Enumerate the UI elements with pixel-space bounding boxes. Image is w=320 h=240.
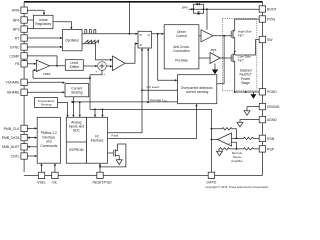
pin PVIN bbox=[259, 16, 275, 22]
wire power stage kelvin to PGND bbox=[245, 91, 247, 92]
ground AGND open bbox=[237, 122, 243, 127]
wire PMB_CLK to PMBus block bbox=[27, 127, 34, 129]
pin RSP bbox=[259, 146, 275, 152]
wire ramp oscillator to PWM comparator bbox=[82, 44, 110, 60]
pin SW bbox=[259, 36, 273, 42]
wire AGND to ground bbox=[240, 120, 259, 123]
wire bottom rail bbox=[24, 174, 262, 176]
block Analog Inputs and ADC / EEPROM bbox=[66, 117, 86, 163]
pin BP3 bbox=[13, 26, 27, 32]
wire SMB_ALRT to pin bbox=[30, 146, 37, 148]
svg-text:ISHARE: ISHARE bbox=[7, 91, 20, 95]
wire top rail bbox=[24, 1, 262, 3]
wire level shifter to summing node bbox=[83, 65, 95, 67]
wire droop line to remote sense feedback bbox=[90, 109, 211, 128]
svg-text:RSP: RSP bbox=[267, 147, 275, 151]
pin RT bbox=[15, 35, 27, 41]
svg-text:PGND: PGND bbox=[267, 90, 277, 94]
wire driver control to high side driver bbox=[199, 35, 201, 37]
wire sense tap to OC block bbox=[223, 35, 225, 37]
wire left pin chain bbox=[23, 2, 25, 172]
wire vsense drop to droop line bbox=[89, 75, 91, 110]
svg-text:VSEL: VSEL bbox=[37, 181, 46, 185]
ground remote sense open bbox=[217, 151, 223, 156]
svg-text:+: + bbox=[37, 69, 39, 73]
block Current Sharing bbox=[65, 84, 89, 97]
pin RSN bbox=[259, 135, 275, 141]
wire right pin chain bbox=[262, 2, 264, 176]
svg-text:StackedNexFETPowerStage: StackedNexFETPowerStage bbox=[240, 69, 252, 86]
block Driver Control / Anti-Cross-Conduction / Pre-Bias bbox=[164, 25, 199, 69]
pin SMB_ALRT bbox=[2, 144, 28, 150]
wire comparator to latch R bbox=[125, 44, 136, 64]
svg-text:EEPROM: EEPROM bbox=[69, 148, 84, 152]
svg-text:+: + bbox=[95, 70, 97, 74]
dashed power stage box bbox=[222, 18, 256, 91]
wire DRGND to ground bbox=[247, 107, 259, 111]
transistor Q1 reset open drain bbox=[108, 152, 114, 154]
svg-text:COMP: COMP bbox=[9, 54, 20, 58]
wire latch Q to driver control bbox=[152, 33, 162, 35]
wire current sharing to ADC bbox=[72, 97, 74, 115]
svg-text:FB: FB bbox=[15, 62, 20, 66]
wire VSEL up to PMBus block bbox=[41, 166, 43, 173]
clock pulses glyph bbox=[85, 30, 96, 34]
svg-text:Oscillator: Oscillator bbox=[65, 38, 80, 42]
pin RESET/PGD bbox=[92, 172, 112, 184]
resistor R4 to ground bbox=[219, 148, 236, 152]
pin FB bbox=[15, 61, 27, 67]
svg-text:CurrentSharing: CurrentSharing bbox=[71, 86, 83, 94]
block I2C Interface bbox=[87, 117, 108, 163]
wire BOOT supply down to high side driver bbox=[206, 9, 208, 30]
wire BP3 to Linear Regulators bbox=[27, 28, 33, 30]
wire low side driver to FET gate bbox=[220, 57, 231, 59]
pin PGND bbox=[259, 89, 277, 95]
svg-text:SYNC: SYNC bbox=[10, 45, 20, 49]
ground below Q1 bbox=[116, 160, 122, 165]
wire average line to ADC bbox=[79, 102, 81, 115]
wire PGND line bbox=[235, 91, 260, 93]
svg-text:VSHARE: VSHARE bbox=[6, 81, 21, 85]
svg-text:+: + bbox=[104, 72, 106, 76]
svg-text:Fault: Fault bbox=[112, 134, 119, 138]
pin AGND bbox=[259, 116, 277, 122]
svg-text:BOOT: BOOT bbox=[267, 7, 277, 11]
PWM comparator U3 bbox=[113, 56, 126, 71]
boot circuit wires and diodes bbox=[189, 8, 260, 10]
pin SYNC bbox=[10, 44, 27, 50]
feedback resistor R1 bbox=[211, 128, 236, 139]
wire RESET/PGD up to I2C interface bbox=[99, 166, 101, 173]
svg-text:RemoteSenseAmplifier: RemoteSenseAmplifier bbox=[231, 151, 243, 163]
wire OC event to latch R bottom bbox=[142, 51, 178, 91]
remote sense amp U4 bbox=[218, 133, 232, 146]
wire amp output to DIFFO bbox=[211, 129, 217, 172]
wire PMB_DATA bidirectional bbox=[30, 137, 35, 139]
wire vsense horizontal bbox=[33, 77, 90, 79]
wire SW to FET midpoint bbox=[235, 40, 260, 55]
wire latch Q down to OC block bbox=[158, 34, 175, 81]
block Oscillator bbox=[63, 29, 83, 50]
wire Linear Regulators to Oscillator top bbox=[53, 22, 71, 27]
svg-text:ISL: ISL bbox=[52, 181, 57, 185]
wire RT to Oscillator bbox=[27, 37, 60, 39]
svg-text:-: - bbox=[229, 137, 230, 141]
wire vin drop to clock line bbox=[128, 3, 130, 34]
wire ISHARE to current sharing bbox=[27, 91, 62, 93]
svg-text:-: - bbox=[37, 62, 38, 66]
wire high side driver to FET gate bbox=[213, 35, 231, 37]
transistor high-side FET bbox=[230, 31, 232, 38]
wire driver control to low side driver bbox=[199, 57, 210, 59]
wire RSN input resistor R2 bbox=[232, 137, 260, 139]
wire average iout line bbox=[72, 101, 177, 103]
wire RSP input resistor R3 bbox=[232, 142, 260, 150]
pin ISL bbox=[52, 172, 58, 184]
svg-text:PMB_DATA: PMB_DATA bbox=[2, 136, 21, 140]
svg-text:BP3: BP3 bbox=[13, 28, 20, 32]
svg-text:DIFFO: DIFFO bbox=[206, 181, 216, 185]
wire summing node bottom input bbox=[90, 70, 102, 75]
wire droop drops into interface blocks bbox=[94, 109, 96, 114]
driver amp low side bbox=[210, 53, 220, 64]
wire FET chain mid bbox=[234, 41, 236, 52]
pin CNTL bbox=[11, 153, 28, 159]
wire FB to error amp bbox=[27, 63, 34, 65]
svg-text:BP6: BP6 bbox=[13, 18, 20, 22]
wire error amp to level shifter bbox=[49, 65, 65, 67]
block Temperature Sensing bbox=[35, 98, 58, 108]
svg-text:DRGND: DRGND bbox=[267, 105, 280, 109]
svg-text:VREF: VREF bbox=[43, 72, 51, 76]
pin DIFFO bbox=[206, 172, 216, 184]
wire fault line to OC block bbox=[108, 106, 197, 138]
svg-text:+: + bbox=[228, 142, 230, 146]
svg-text:BP6: BP6 bbox=[211, 48, 217, 52]
pin BP6 bbox=[13, 17, 27, 23]
svg-text:SMB_ALRT: SMB_ALRT bbox=[2, 145, 20, 149]
ground PGND solid bbox=[250, 94, 256, 99]
svg-text:PVIN: PVIN bbox=[267, 17, 275, 21]
wire VSHARE to current sharing bbox=[27, 81, 62, 83]
pin BOOT bbox=[259, 6, 276, 12]
svg-text:SW: SW bbox=[267, 38, 273, 42]
svg-text:PMB_CLK: PMB_CLK bbox=[4, 127, 21, 131]
pin AVIN bbox=[12, 7, 27, 13]
pin PMB_DATA bbox=[2, 134, 28, 140]
wire low-side FET source to PGND bbox=[234, 65, 236, 92]
pin ISHARE bbox=[7, 89, 27, 95]
wire SYNC to Oscillator bbox=[27, 46, 60, 48]
wire CNTL to PMBus block bbox=[27, 155, 34, 157]
SR latch U2 bbox=[138, 31, 152, 48]
wire vsense to error amp plus input bbox=[32, 70, 35, 78]
svg-text:BP6: BP6 bbox=[182, 6, 188, 10]
pin COMP bbox=[9, 53, 27, 59]
pin DRGND bbox=[259, 103, 280, 109]
sawtooth ramp glyph bbox=[85, 40, 99, 43]
svg-text:AGND: AGND bbox=[267, 118, 277, 122]
svg-text:RESET/PGD: RESET/PGD bbox=[92, 181, 112, 185]
block Level Shifter bbox=[65, 60, 83, 71]
ground below low side driver bbox=[214, 64, 216, 70]
transistor low-side FET bbox=[230, 55, 232, 62]
wire clock line oscillator to latch S bbox=[82, 33, 136, 35]
wire AVIN to Linear Regulators bbox=[27, 10, 44, 13]
pin VSEL bbox=[37, 172, 46, 184]
wire fault reset to I2C interface bbox=[108, 90, 142, 133]
svg-text:CNTL: CNTL bbox=[11, 154, 20, 158]
svg-text:RSN: RSN bbox=[267, 137, 275, 141]
error amp U1 bbox=[36, 60, 49, 72]
wire temperature sensing to ADC bbox=[58, 103, 68, 115]
block Overcurrent detection, current sensing bbox=[178, 75, 217, 104]
wire latch bottom second arrow bbox=[147, 51, 149, 103]
ground DRGND open bbox=[244, 111, 250, 116]
svg-text:RT: RT bbox=[15, 36, 19, 40]
wire ISL up to PMBus block bbox=[54, 166, 56, 173]
wire COMP to error amp output bbox=[27, 56, 57, 66]
wire PVIN to high-side FET drain bbox=[235, 19, 260, 27]
block Linear Regulators bbox=[33, 15, 53, 28]
pin VSHARE bbox=[6, 79, 28, 85]
pin PMB_CLK bbox=[4, 125, 28, 131]
wire BP6 to Linear Regulators bbox=[27, 19, 33, 21]
svg-text:S: S bbox=[140, 33, 142, 37]
summing node bbox=[98, 62, 107, 71]
block PMBus 1.2 Interface and Commands bbox=[37, 117, 60, 163]
driver amp high side bbox=[201, 30, 213, 42]
svg-text:Copyright © 2016, Texas Instru: Copyright © 2016, Texas Instruments Inco… bbox=[206, 185, 269, 189]
svg-text:AVIN: AVIN bbox=[12, 9, 20, 13]
wire summing node to comparator bbox=[106, 65, 110, 67]
